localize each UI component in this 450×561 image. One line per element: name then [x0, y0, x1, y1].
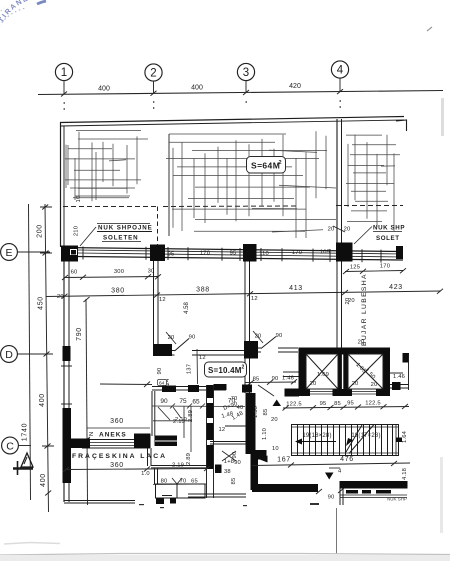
W2 end black block: [153, 344, 172, 356]
triangle marker left (stairs): [259, 456, 268, 463]
stair direction arrow: [297, 441, 336, 443]
svg-text:20: 20: [328, 227, 335, 233]
svg-text:E: E: [5, 247, 12, 259]
hall wall y≈349 right of W3 with door: [258, 337, 298, 354]
svg-text:450: 450: [38, 296, 45, 310]
svg-text:90: 90: [232, 452, 238, 459]
bottom corridor wall left segment (black): [252, 484, 318, 492]
note NUK SHPOJNE SOLETEN (right, cut): [354, 225, 405, 245]
interior wall x≈156 (W2): [154, 261, 159, 344]
axis-4 wall continuation below facade (x≈339): [337, 262, 342, 348]
svg-text:167: 167: [277, 457, 291, 464]
svg-text:12: 12: [199, 355, 206, 361]
svg-text:12: 12: [159, 297, 166, 303]
stair treads: [298, 425, 393, 456]
balcony left border (double line): [61, 123, 65, 248]
room label S=10.4M2 box: [205, 362, 247, 377]
dashed vertical slab edge x=157.5: [157, 207, 159, 247]
interior wall x≈247 (W3): [245, 262, 250, 394]
grid bubble E: [1, 244, 50, 261]
svg-text:4.58: 4.58: [184, 302, 190, 314]
svg-text:122.5: 122.5: [365, 400, 381, 406]
svg-text:413: 413: [289, 285, 303, 292]
svg-text:400: 400: [191, 85, 203, 92]
stair flight outline: [292, 425, 399, 456]
grid bubble 1: [55, 63, 72, 96]
svg-text:1: 1: [61, 67, 67, 79]
svg-text:90: 90: [328, 495, 335, 501]
facade wall row E: window sill lines: [62, 248, 403, 261]
small marks under plan: [139, 503, 319, 508]
svg-text:1.0: 1.0: [141, 471, 150, 477]
ceiling hatch patch middle: [166, 131, 336, 238]
ceiling hatch patch left: [65, 131, 148, 202]
wall from corner down: [340, 489, 343, 506]
svg-text:200: 200: [37, 224, 44, 238]
svg-text:95: 95: [230, 251, 237, 257]
svg-text:S=10.4M: S=10.4M: [208, 366, 242, 375]
black block right of shaft with 38: [215, 465, 222, 474]
svg-text:20: 20: [352, 381, 359, 387]
svg-text:95: 95: [347, 401, 354, 407]
svg-text:1.53: 1.53: [253, 406, 259, 418]
svg-text:360: 360: [110, 418, 124, 425]
svg-text:S=64M: S=64M: [251, 161, 280, 171]
svg-text:10: 10: [272, 446, 279, 452]
svg-text:125: 125: [350, 265, 360, 271]
vertical line to page bottom: [336, 508, 338, 554]
svg-text:2.15: 2.15: [173, 419, 185, 425]
bottom-left room outline: [156, 484, 206, 498]
plumbing shaft wall (dashed thick) x≈210: [207, 385, 214, 469]
bottom-left black bits: [156, 499, 164, 505]
hatch2 left edge line: [168, 134, 170, 236]
svg-text:19(18×28): 19(18×28): [302, 433, 331, 439]
dim line right bay lower: 125 170: [343, 268, 406, 274]
svg-text:2: 2: [150, 68, 156, 80]
long dim line 380/388/413/423: [46, 289, 443, 299]
svg-text:105: 105: [320, 250, 330, 256]
left wall black segment 1: [63, 346, 71, 361]
svg-text:90: 90: [157, 368, 163, 375]
section marker A below C: [13, 453, 33, 475]
facade column E/4 (black): [336, 243, 353, 262]
svg-text:65: 65: [192, 399, 200, 406]
svg-text:1.10: 1.10: [262, 428, 268, 440]
ANEKS band black blocks: [71, 439, 90, 449]
svg-text:40: 40: [237, 405, 244, 411]
stair cut diagonals: [346, 425, 374, 454]
left rooms bottom edge: [64, 501, 135, 504]
svg-text:60: 60: [71, 270, 78, 276]
top grid axis dimension line: [38, 91, 443, 95]
svg-text:423: 423: [389, 284, 403, 291]
svg-text:1.69: 1.69: [317, 372, 329, 378]
bath partitions: [153, 406, 191, 452]
dim 167 / 476: [252, 461, 410, 468]
wall below aneks block: [148, 448, 158, 484]
svg-text:70: 70: [231, 396, 238, 402]
svg-text:12: 12: [219, 427, 226, 433]
bath block top wall y≈388: [152, 387, 226, 437]
grid bubble 4: [331, 61, 348, 94]
down triangle and 4: [325, 473, 334, 480]
svg-text:NUK SHP: NUK SHP: [387, 497, 407, 502]
elevator dim line 122.5/95/85/95/122.5: [283, 404, 410, 411]
svg-text:85: 85: [253, 377, 260, 383]
grid bubble C: [2, 437, 31, 454]
svg-text:388: 388: [196, 287, 210, 294]
scan artifact: right edge smudges: [441, 98, 444, 136]
svg-text:1+8: 1+8: [224, 459, 234, 465]
W3 end black block: [244, 341, 258, 359]
ceiling hatch patch right: [346, 135, 400, 231]
hall wall y≈351 with door (left): [172, 339, 245, 357]
svg-text:380: 380: [111, 288, 125, 295]
stamp TIRANE (blue, top-left corner, partially cut): [0, 0, 46, 30]
svg-text:360: 360: [110, 462, 124, 469]
facade column E/1 (corner, black): [61, 246, 78, 262]
svg-text:122.5: 122.5: [286, 402, 302, 408]
svg-text:FRAÇESKINA LACA: FRAÇESKINA LACA: [72, 453, 167, 460]
svg-text:NUK SHPOJNE: NUK SHPOJNE: [98, 225, 153, 232]
elevator side stubs: [283, 372, 409, 388]
svg-text:420: 420: [289, 83, 301, 90]
svg-text:10: 10: [76, 196, 82, 203]
svg-text:1740: 1740: [22, 423, 29, 441]
window mullion ticks row E: [83, 247, 381, 263]
svg-text:12: 12: [251, 296, 258, 302]
dim line bay1 below wall: 60 300 30: [62, 274, 161, 280]
svg-text:170: 170: [292, 250, 302, 256]
tiny 64 box: [158, 380, 167, 386]
svg-text:20: 20: [371, 382, 378, 388]
svg-text:95: 95: [168, 252, 175, 258]
sub-wall strips under right segment: [346, 490, 391, 494]
grid bubble 3: [237, 63, 254, 95]
swing diagonals near corridor: [222, 451, 236, 461]
facade column E/3 (black): [243, 244, 257, 262]
svg-text:2.89: 2.89: [188, 410, 194, 422]
svg-text:90: 90: [160, 398, 168, 405]
svg-text:19(17×28): 19(17×28): [351, 433, 380, 439]
top border right end bracket: [396, 120, 407, 131]
svg-text:170: 170: [200, 251, 210, 257]
scan artifact: bottom paper edge: [0, 554, 450, 556]
svg-text:1.46: 1.46: [393, 374, 405, 380]
svg-text:38: 38: [224, 469, 231, 475]
elevator cab right (X): [348, 354, 383, 389]
facade column right end (black): [396, 246, 403, 259]
svg-text:3: 3: [243, 67, 249, 79]
svg-text:790: 790: [76, 327, 83, 341]
bath wall black segments: [162, 386, 176, 393]
axis dots below line: [64, 100, 341, 110]
corridor dim line 85 90 146: [245, 379, 297, 385]
svg-text:D: D: [5, 349, 13, 361]
corridor swing door: [258, 385, 274, 396]
corridor wall corner step: [251, 450, 267, 460]
svg-text:4: 4: [338, 469, 342, 475]
scan artifact: top right tick: [427, 27, 432, 31]
svg-text:2: 2: [279, 160, 282, 166]
svg-text:137: 137: [187, 364, 193, 374]
svg-text:BUJAR LUBESHA: BUJAR LUBESHA: [361, 273, 368, 346]
svg-text:90: 90: [276, 333, 283, 339]
svg-text:170: 170: [380, 264, 390, 270]
svg-text:90: 90: [272, 376, 279, 382]
left overall dimension line 17.40: [29, 204, 49, 512]
room1 vertical dim line 790: [86, 299, 88, 505]
balcony top border (double line): [60, 117, 404, 127]
note NUK SHPOJNE SOLETEN (left): [80, 224, 153, 247]
svg-text:2: 2: [242, 365, 245, 371]
svg-text:85: 85: [334, 401, 341, 407]
svg-text:64: 64: [159, 381, 165, 387]
grid bubble 2: [145, 64, 162, 96]
stair right black bit: [396, 438, 402, 443]
svg-text:85: 85: [231, 478, 237, 485]
svg-text:400: 400: [39, 393, 46, 407]
grid bubble D: [1, 346, 47, 363]
triangle marker up (entry): [273, 400, 282, 407]
hall walls y≈466: [151, 466, 207, 468]
elevator cab left (X): [306, 354, 338, 389]
svg-text:4: 4: [337, 65, 344, 77]
elevator outer walls (black): [299, 348, 391, 397]
ANEKS band wall: [82, 440, 150, 449]
bottom corridor wall right segment (black): [340, 481, 408, 489]
svg-text:90: 90: [234, 460, 241, 466]
left exterior wall (double): [64, 261, 69, 502]
svg-text:20: 20: [57, 294, 64, 300]
svg-text:400: 400: [98, 86, 110, 93]
svg-text:20: 20: [345, 298, 351, 305]
svg-text:75: 75: [179, 398, 187, 405]
svg-text:210: 210: [74, 226, 80, 236]
svg-text:2.89: 2.89: [186, 453, 192, 465]
svg-text:300: 300: [114, 269, 124, 275]
svg-text:SOLET: SOLET: [376, 235, 400, 242]
svg-text:C: C: [6, 441, 14, 453]
svg-text:20: 20: [271, 417, 278, 423]
corridor wall black (x≈250): [242, 385, 252, 393]
left dim ticks: [40, 205, 54, 496]
svg-text:SOLETEN: SOLETEN: [103, 235, 139, 242]
svg-text:400: 400: [40, 473, 47, 487]
dashed slab edge line across top strip: [63, 206, 403, 207]
left wall black segment 2 (long): [63, 408, 72, 483]
svg-text:476: 476: [340, 456, 354, 463]
svg-text:N: N: [89, 432, 95, 436]
facade column E/2 (black): [150, 245, 165, 262]
interior wall between axes (x≈338) top strip: [337, 119, 342, 244]
svg-text:95: 95: [320, 401, 327, 407]
svg-text:1.64: 1.64: [402, 430, 408, 443]
left wall window ticks: [61, 366, 72, 404]
svg-text:4.18: 4.18: [402, 468, 408, 480]
svg-text:ANEKS: ANEKS: [99, 432, 127, 439]
thin walls left of corridor: [210, 426, 246, 444]
room area label S=64M2: [247, 157, 286, 174]
svg-text:90: 90: [189, 335, 196, 341]
svg-text:85: 85: [263, 409, 269, 416]
svg-text:110: 110: [259, 251, 269, 257]
svg-text:NUK SHP: NUK SHP: [373, 225, 405, 232]
svg-text:20: 20: [310, 381, 317, 387]
dim line y=469: [63, 466, 210, 472]
